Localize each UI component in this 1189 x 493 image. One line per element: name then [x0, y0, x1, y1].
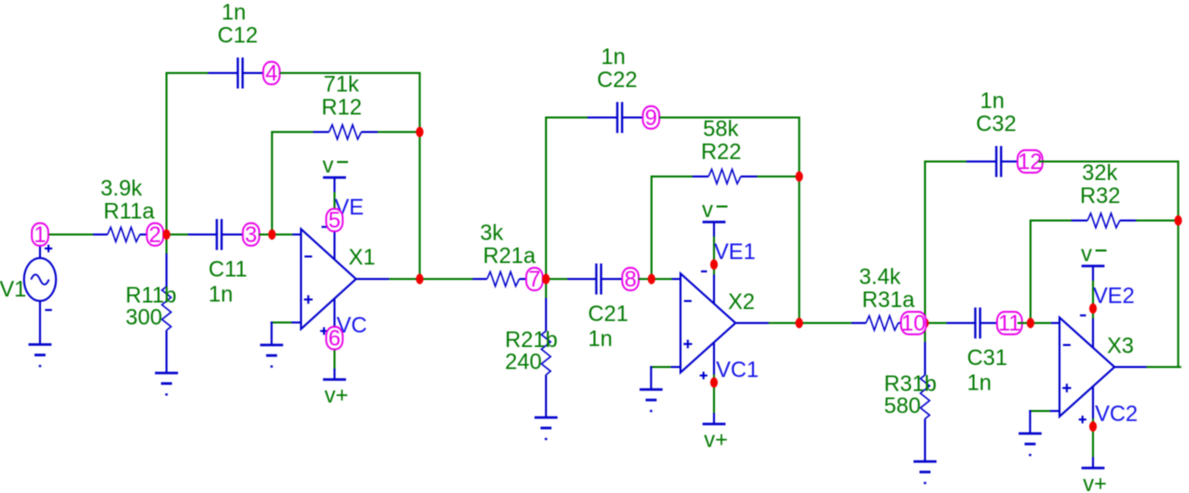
wire C11 to node: [223, 234, 244, 236]
wire inverting input lead: [672, 278, 681, 280]
junction dot VC: [710, 377, 718, 387]
wire inverting input lead: [1051, 322, 1060, 324]
ground R31b: [914, 462, 937, 484]
label C32 value: [980, 88, 1004, 113]
wire C12 top right: [280, 72, 420, 74]
label C21 value: [588, 326, 612, 351]
svg-text:R31a: R31a: [862, 287, 915, 312]
wire R12 riser: [271, 131, 273, 235]
wire R22 left lead: [693, 176, 709, 178]
svg-text:1n: 1n: [222, 0, 246, 25]
svg-text:240: 240: [505, 349, 542, 374]
node 3: [243, 222, 259, 247]
wire stage1 input lead: [93, 234, 108, 236]
label C31 value: [967, 370, 991, 395]
wire C22 top right: [660, 117, 800, 119]
wire feedback drop to output: [419, 132, 421, 279]
op-amp X3 plus mark: [1063, 384, 1072, 393]
wire noninverting to corner: [1029, 410, 1050, 412]
wire output lead: [1115, 366, 1147, 368]
wire feedback drop to output: [1177, 221, 1179, 369]
wire R11b bottom lead: [166, 330, 168, 373]
wire R11b top: [166, 235, 168, 254]
svg-text:C22: C22: [597, 67, 637, 92]
wire R12 top left: [271, 131, 313, 133]
resistor R21a: [487, 272, 519, 286]
junction dot node 10: [921, 318, 929, 328]
svg-text:VE1: VE1: [714, 239, 756, 264]
wire R21b lead: [545, 298, 547, 331]
label R21b name: [505, 327, 558, 352]
svg-text:3.4k: 3.4k: [859, 264, 902, 289]
capacitor C22: [617, 102, 622, 133]
wire output: [1147, 366, 1182, 368]
voltage source V1 top stub: [39, 246, 41, 259]
svg-text:X3: X3: [1107, 333, 1134, 358]
svg-text:R32: R32: [1080, 183, 1120, 208]
label R31a name: [862, 287, 915, 312]
label C21 name: [588, 301, 628, 326]
label R32 value: [1082, 160, 1118, 185]
label v- text: [1081, 241, 1107, 266]
pin VE into opamp: [713, 275, 715, 304]
wire node junction vertical tap: [163, 234, 188, 236]
capacitor C12: [238, 58, 243, 89]
label X1 name: [349, 245, 376, 270]
svg-text:X1: X1: [349, 245, 376, 270]
op-amp X2: [681, 274, 736, 373]
wire R22 top left: [651, 176, 693, 178]
label VC text: [337, 313, 368, 338]
label R12 value: [324, 72, 360, 97]
wire noninverting lead: [671, 366, 681, 368]
resistor R11a: [108, 227, 140, 241]
power bar v-: [703, 221, 726, 224]
svg-text:1n: 1n: [588, 326, 612, 351]
power bar v+: [703, 423, 726, 426]
svg-text:7: 7: [528, 267, 540, 292]
svg-text:58k: 58k: [703, 116, 739, 141]
wire to next stage: [800, 322, 853, 324]
node 6: [326, 326, 343, 351]
capacitor C11: [217, 219, 222, 250]
wire to C21: [568, 278, 596, 280]
pin v+ stub: [713, 413, 715, 424]
ground noninverting input: [260, 345, 283, 367]
label v- text: [323, 153, 349, 178]
junction dot inverting input: [1027, 318, 1035, 328]
wire R22 to corner: [757, 176, 799, 178]
wire to C11: [188, 234, 216, 236]
wire feedback drop to output: [798, 177, 800, 324]
wire noninverting lead: [292, 322, 302, 324]
label R21b value: [505, 349, 542, 374]
wire inverting input lead: [293, 234, 302, 236]
voltage source V1 minus mark: [45, 309, 52, 311]
VE pin minus mark: [1080, 314, 1086, 316]
label VC2 text: [1095, 401, 1138, 426]
wire noninverting drop: [271, 322, 273, 346]
wire R32 to corner: [1136, 220, 1178, 222]
voltage source V1 body: [24, 258, 56, 301]
resistor R32: [1088, 213, 1120, 227]
svg-text:32k: 32k: [1082, 160, 1118, 185]
op-amp X1: [301, 229, 356, 329]
VC pin plus mark: [320, 327, 328, 335]
wire stage3 input lead: [852, 322, 867, 324]
svg-text:6: 6: [328, 326, 340, 351]
wire VC pin: [1092, 419, 1094, 458]
wire C22 right drop: [798, 117, 800, 177]
label V1: [0, 277, 26, 302]
node 9: [643, 105, 660, 130]
node 4: [263, 61, 280, 86]
node 5: [326, 208, 343, 233]
label C12 value: [222, 0, 246, 25]
node 12: [1018, 149, 1043, 174]
power bar v+: [323, 378, 346, 381]
label R11b value: [126, 305, 163, 330]
junction dot VC: [1089, 421, 1097, 431]
wire C12 left lead: [208, 72, 238, 74]
svg-text:C32: C32: [976, 111, 1016, 136]
wire R32 left lead: [1072, 220, 1088, 222]
svg-text:300: 300: [126, 305, 163, 330]
svg-text:580: 580: [884, 393, 921, 418]
pin v+ stub: [334, 369, 336, 380]
label R21a name: [483, 243, 536, 268]
wire output: [389, 278, 420, 280]
wire R22 riser: [651, 176, 653, 280]
resistor R21b: [541, 331, 550, 375]
VC pin plus mark: [700, 372, 708, 380]
wire noninverting drop: [1029, 410, 1031, 434]
wire VC pin: [334, 330, 336, 369]
resistor R22: [709, 169, 741, 183]
wire R12 right lead: [361, 131, 377, 133]
pin VE into opamp: [1092, 319, 1094, 348]
svg-text:v+: v+: [704, 427, 728, 452]
svg-text:R21a: R21a: [483, 243, 536, 268]
svg-text:1: 1: [34, 222, 46, 247]
voltage source V1 plus mark: [45, 245, 53, 253]
svg-text:3: 3: [245, 222, 257, 247]
label R32 name: [1080, 183, 1120, 208]
svg-text:3.9k: 3.9k: [101, 176, 144, 201]
wire C32 left lead: [967, 161, 997, 163]
label VC1 text: [716, 357, 759, 382]
wire C12 top left: [166, 72, 209, 74]
op-amp X1 plus mark: [304, 295, 313, 304]
label C12 name: [218, 23, 258, 48]
svg-text:C31: C31: [967, 345, 1007, 370]
svg-text:v: v: [1081, 241, 1092, 266]
voltage source V1 sine: [31, 275, 49, 285]
svg-text:v+: v+: [325, 383, 349, 408]
label R11a value: [101, 176, 144, 201]
op-amp X3 minus mark: [1063, 344, 1071, 346]
wire C12 right lead: [243, 72, 263, 74]
svg-text:X2: X2: [728, 289, 755, 314]
label C11 value: [209, 282, 233, 307]
VE pin minus mark: [701, 270, 707, 272]
svg-text:71k: 71k: [324, 72, 360, 97]
label v- text: [702, 197, 728, 222]
wire R11b lead: [166, 254, 168, 287]
wire VE pin: [713, 237, 715, 275]
capacitor C21: [596, 264, 601, 295]
svg-text:R12: R12: [322, 95, 362, 120]
ground noninverting input: [1019, 434, 1042, 456]
node 2: [147, 222, 164, 247]
ground R21b: [535, 418, 558, 440]
ground R11b: [155, 373, 178, 395]
wire C32 right lead: [1002, 161, 1022, 163]
junction dot feedback corner: [795, 171, 803, 181]
svg-text:C21: C21: [588, 301, 628, 326]
pin VC into opamp: [713, 342, 715, 374]
label X2 name: [728, 289, 755, 314]
pin v- stub: [1092, 266, 1094, 281]
wire node to opamp: [259, 234, 293, 236]
svg-text:1n: 1n: [967, 370, 991, 395]
label R22 value: [703, 116, 739, 141]
svg-text:VC1: VC1: [716, 357, 759, 382]
label C32 name: [976, 111, 1016, 136]
wire C12 right drop: [419, 72, 421, 132]
junction dot node 2: [163, 229, 171, 239]
wire noninverting drop: [650, 366, 652, 390]
wire noninverting to corner: [650, 366, 671, 368]
label VE text: [335, 195, 364, 220]
wire C32 top right: [1039, 161, 1179, 163]
ground V1: [29, 345, 52, 367]
wire C32 riser: [924, 161, 926, 323]
wire R12 left lead: [313, 131, 329, 133]
label R31a value: [859, 264, 902, 289]
svg-text:4: 4: [265, 61, 277, 86]
wire output lead: [736, 322, 769, 324]
wire VE pin: [334, 192, 336, 230]
wire V1 to ground: [39, 301, 41, 345]
wire VC pin: [713, 375, 715, 414]
label v+ text: [325, 383, 349, 408]
wire R21a to node: [519, 278, 526, 280]
junction dot feedback corner: [416, 127, 424, 137]
op-amp X2 plus mark: [684, 340, 693, 349]
svg-text:10: 10: [901, 311, 925, 336]
node 7: [526, 267, 543, 292]
junction dot node 7: [542, 274, 550, 284]
wire R11a to node: [140, 234, 147, 236]
pin v+ stub: [1092, 457, 1094, 468]
wire C31 to node: [981, 322, 1002, 324]
VE pin minus mark: [322, 226, 328, 228]
wire to C31: [947, 322, 975, 324]
capacitor C31: [975, 308, 980, 339]
pin VC into opamp: [1092, 386, 1094, 418]
svg-text:5: 5: [328, 208, 340, 233]
wire stage2 input lead: [473, 278, 488, 280]
wire output: [769, 322, 800, 324]
wire node to opamp: [1018, 322, 1052, 324]
resistor R12: [329, 125, 361, 139]
wire R22 right lead: [741, 176, 757, 178]
junction dot VE: [710, 259, 718, 269]
wire R32 right lead: [1120, 220, 1136, 222]
wire R31a to node: [898, 322, 905, 324]
svg-text:VC2: VC2: [1095, 401, 1138, 426]
svg-text:VE2: VE2: [1093, 283, 1135, 308]
wire node junction vertical tap: [543, 278, 568, 280]
wire VE pin: [1092, 281, 1094, 319]
label X3 name: [1107, 333, 1134, 358]
wire C12 riser: [166, 72, 168, 234]
label R31b value: [884, 393, 921, 418]
node 10: [901, 311, 926, 336]
wire C22 top left: [545, 117, 588, 119]
svg-text:2: 2: [149, 222, 161, 247]
wire to next stage: [420, 278, 473, 280]
wire output lead: [356, 278, 389, 280]
label R22 name: [701, 139, 741, 164]
wire node1 to R11a: [49, 234, 94, 236]
wire R21b bottom lead: [545, 375, 547, 418]
op-amp X2 minus mark: [684, 300, 692, 302]
ground noninverting input: [640, 390, 663, 412]
svg-text:1n: 1n: [209, 282, 233, 307]
power bar v-: [323, 176, 346, 179]
junction dot inverting input: [648, 274, 656, 284]
wire C22 left lead: [588, 117, 618, 119]
label C11 name: [209, 257, 248, 282]
resistor R11b: [162, 287, 171, 331]
resistor R31a: [866, 316, 898, 330]
wire noninverting lead: [1050, 410, 1060, 412]
wire C32 top left: [924, 161, 967, 163]
label C22 value: [601, 44, 625, 69]
junction dot feedback corner: [1174, 215, 1182, 225]
svg-text:1n: 1n: [980, 88, 1004, 113]
capacitor C32: [996, 146, 1001, 177]
svg-text:v+: v+: [1083, 471, 1107, 493]
pin VC into opamp: [334, 299, 336, 330]
svg-text:v: v: [702, 197, 713, 222]
svg-text:R11a: R11a: [104, 199, 156, 224]
svg-text:V1: V1: [0, 277, 26, 302]
node 11: [997, 311, 1022, 336]
pin VE into opamp: [334, 230, 336, 259]
op-amp X3: [1060, 318, 1115, 417]
power bar v-: [1082, 265, 1105, 268]
node 8: [622, 267, 639, 292]
label R31b name: [884, 371, 937, 396]
wire R21b top: [545, 279, 547, 298]
junction dot output: [795, 318, 803, 328]
wire R31b top: [924, 323, 926, 342]
wire R32 riser: [1030, 220, 1032, 324]
label R21a value: [480, 220, 504, 245]
label v+ text: [704, 427, 728, 452]
wire C21 to node: [602, 278, 623, 280]
svg-text:1n: 1n: [601, 44, 625, 69]
junction dot output: [416, 274, 424, 284]
svg-text:8: 8: [624, 267, 636, 292]
label VE1 text: [714, 239, 756, 264]
svg-text:v: v: [323, 153, 334, 178]
label R11a name: [104, 199, 156, 224]
label C22 name: [597, 67, 637, 92]
junction dot inverting input: [268, 229, 276, 239]
VC pin plus mark: [1079, 416, 1087, 424]
op-amp X1 minus mark: [305, 256, 313, 258]
power bar v+: [1082, 467, 1105, 470]
junction dot VE: [1089, 303, 1097, 313]
wire R12 to corner: [378, 131, 420, 133]
svg-text:11: 11: [998, 311, 1021, 336]
resistor R31b: [920, 375, 929, 419]
wire node to opamp: [639, 278, 673, 280]
wire R32 top left: [1030, 220, 1072, 222]
svg-text:C12: C12: [218, 23, 258, 48]
svg-text:9: 9: [645, 105, 657, 130]
pin v- stub: [713, 222, 715, 237]
label VE2 text: [1093, 283, 1135, 308]
label R12 name: [322, 95, 362, 120]
wire node junction vertical tap: [922, 322, 947, 324]
svg-text:R22: R22: [701, 139, 741, 164]
wire R31b lead: [924, 342, 926, 375]
svg-text:C11: C11: [209, 257, 248, 282]
wire C32 right drop: [1177, 161, 1179, 221]
label v+ text: [1083, 471, 1107, 493]
label C31 name: [967, 345, 1007, 370]
svg-text:3k: 3k: [480, 220, 504, 245]
wire C22 riser: [545, 117, 547, 279]
label R11b name: [126, 283, 177, 308]
wire noninverting to corner: [271, 322, 292, 324]
wire R31b bottom lead: [924, 419, 926, 462]
pin v- stub: [334, 178, 336, 193]
node 1: [32, 222, 49, 247]
wire C22 right lead: [623, 117, 643, 119]
